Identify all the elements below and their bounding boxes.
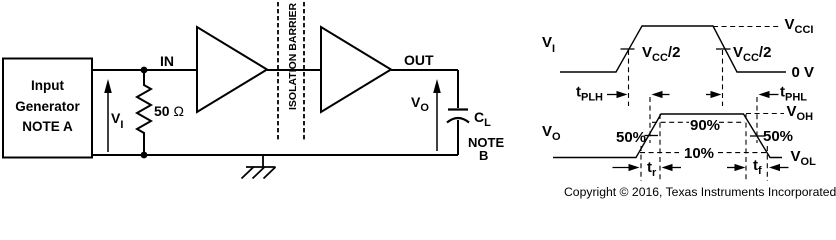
arrow tPHL right-pointing	[706, 91, 722, 98]
dashed level VCCI	[713, 26, 781, 28]
buffer U2	[321, 27, 391, 112]
svg-text:B: B	[479, 148, 488, 163]
svg-text:VCC/2: VCC/2	[642, 44, 680, 64]
dashed level VOH	[746, 113, 784, 115]
svg-text:50 Ω: 50 Ω	[154, 103, 184, 119]
tick 50% falling	[750, 135, 765, 137]
svg-text:Generator: Generator	[15, 99, 80, 114]
wire bottom return	[92, 154, 458, 156]
resistor R 50ohm	[137, 70, 151, 155]
svg-text:tPLH: tPLH	[576, 84, 603, 104]
svg-text:VO: VO	[411, 94, 429, 114]
svg-text:VOL: VOL	[791, 148, 817, 168]
isolation barrier dashed line left	[277, 2, 279, 140]
capacitor CL	[447, 110, 469, 123]
svg-text:VO: VO	[542, 123, 561, 143]
svg-text:tf: tf	[753, 157, 762, 177]
arrow tPLH right-pointing	[607, 91, 628, 98]
tick VCC/2 rising	[621, 48, 635, 50]
svg-text:VOH: VOH	[787, 103, 814, 123]
input generator box	[3, 59, 92, 158]
label NOTE B	[468, 135, 504, 163]
svg-text:CL: CL	[474, 109, 491, 129]
arrow tf left-pointing	[769, 164, 789, 171]
svg-text:0 V: 0 V	[792, 64, 815, 81]
wire IN: generator to buffer U1 input	[92, 69, 197, 71]
dashed level 10%	[640, 152, 766, 154]
dashed vertical tf left 90%	[745, 114, 747, 181]
svg-text:NOTE A: NOTE A	[22, 119, 73, 134]
svg-text:VCCI: VCCI	[785, 16, 814, 36]
svg-text:tPHL: tPHL	[780, 84, 807, 104]
svg-text:VCC/2: VCC/2	[733, 44, 771, 64]
tick VCC/2 falling	[716, 48, 731, 50]
svg-text:Input: Input	[31, 78, 64, 93]
dashed vertical VI rising crossing	[628, 50, 630, 106]
svg-text:10%: 10%	[684, 145, 714, 162]
svg-text:VI: VI	[542, 34, 555, 55]
wire U1 output to barrier	[267, 69, 321, 71]
waveform VI	[560, 26, 786, 72]
svg-text:Copyright © 2016, Texas Instru: Copyright © 2016, Texas Instruments Inco…	[564, 185, 836, 199]
svg-text:90%: 90%	[690, 117, 720, 134]
wire output branch down	[457, 70, 459, 108]
arrow tr right-pointing	[613, 164, 640, 171]
ground	[242, 155, 276, 179]
arrow tPLH left-pointing	[652, 91, 670, 98]
dashed vertical VO 50% rising	[649, 97, 651, 143]
dashed level 90%	[652, 121, 745, 123]
arrow tPHL left-pointing	[759, 91, 779, 98]
isolation barrier dashed line right	[303, 2, 305, 140]
arrow VO	[433, 79, 441, 151]
wire OUT	[391, 69, 458, 71]
arrow VI	[104, 79, 112, 152]
waveform VO	[553, 114, 782, 158]
svg-text:IN: IN	[160, 53, 174, 69]
dashed vertical tr left 10%	[640, 146, 642, 181]
node IN junction dot	[141, 67, 148, 74]
arrow tf right-pointing	[727, 164, 746, 171]
svg-text:ISOLATION BARRIER: ISOLATION BARRIER	[287, 2, 299, 110]
wire capacitor to bottom	[457, 120, 459, 155]
dashed vertical tr right 90%	[659, 114, 661, 181]
svg-text:tr: tr	[647, 159, 657, 179]
svg-text:50%: 50%	[616, 129, 646, 146]
svg-text:OUT: OUT	[404, 52, 434, 68]
dashed vertical VI falling crossing	[722, 50, 724, 106]
svg-text:VI: VI	[111, 110, 123, 131]
buffer U1	[197, 27, 267, 112]
tick 50% rising	[645, 135, 659, 137]
node resistor bottom junction dot	[141, 152, 148, 159]
input generator label	[15, 78, 80, 134]
arrow tr left-pointing	[662, 164, 682, 171]
dashed vertical tf right 10%	[766, 146, 768, 181]
dashed vertical VO 50% falling	[756, 97, 758, 143]
svg-text:50%: 50%	[763, 128, 793, 145]
